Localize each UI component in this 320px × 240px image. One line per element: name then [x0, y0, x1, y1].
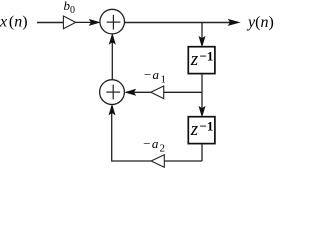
svg-text:−1: −1 [200, 119, 214, 134]
svg-text:−1: −1 [200, 49, 214, 64]
wire tap junction down to delay D1 [201, 22, 203, 44]
wire gain b0 to adder S1 [76, 21, 97, 23]
arrowhead into adder S1 bottom [109, 34, 115, 44]
arrowhead into adder S2 bottom [109, 105, 115, 115]
wire bottom feedback line to gain -a2 [164, 160, 202, 162]
adder S1 circle [100, 9, 125, 34]
svg-text:x(n): x(n) [0, 14, 28, 31]
adder S2 circle [100, 80, 125, 105]
svg-text:z: z [190, 49, 199, 70]
arrowhead into delay D1 top [199, 37, 205, 47]
wire tap between delays to gain -a1 [164, 91, 202, 93]
adder S1 plus sign [107, 21, 121, 23]
wire delay D2 down to bottom feedback line [201, 144, 203, 161]
gain b0 triangle [63, 16, 75, 29]
arrowhead into delay D2 top [199, 107, 205, 117]
gain -a1 triangle (points left) [151, 86, 164, 99]
wire input to gain b0 [37, 21, 63, 23]
arrowhead at output y(n) [228, 19, 239, 25]
svg-text:z: z [190, 119, 199, 140]
wire delay D1 to delay D2 [201, 74, 203, 114]
arrowhead into adder S2 right [125, 89, 135, 95]
svg-text:y(n): y(n) [246, 14, 274, 31]
wire adder S2 up to adder S1 [111, 37, 113, 80]
gain -a2 triangle (points left) [151, 155, 164, 168]
wire adder S1 to output y(n) [125, 21, 237, 23]
arrowhead into adder S1 left [89, 19, 99, 25]
wire gain -a2 to bottom-left corner and up to adder S2 [112, 107, 151, 161]
delay D1 box [188, 47, 215, 74]
adder S2 plus sign [106, 91, 120, 93]
delay D2 box [188, 117, 215, 144]
wire gain -a1 to adder S2 [127, 91, 151, 93]
